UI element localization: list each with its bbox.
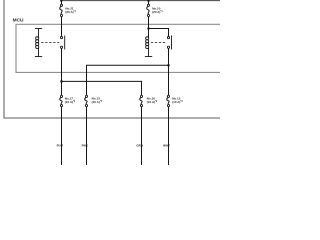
relay 2 coil (right) [145,29,152,57]
svg-text:(20 A)*1: (20 A)*1 [65,10,76,14]
svg-text:PUR: PUR [57,144,64,148]
wire: top line to fuse No.10 [148,1,150,5]
wire: right junction left then down to fuse No.13 [87,65,169,95]
fuse No.10 (20 A) [147,4,150,16]
wire: relay 1 switch down to node [61,48,63,95]
node: relay 2 feed junction [147,27,149,29]
svg-text:GRN: GRN [136,144,143,148]
node: right distribution junction [167,64,170,67]
node: top of No.10 feed [147,0,149,2]
relay 1 dashed link [41,42,59,44]
outer fuse/relay box border (cut off at top/right) [4,0,220,118]
relay 2 dashed link [151,42,166,44]
top bus wire [61,0,220,2]
wire: fuse No.13 to connector [86,107,88,165]
wire: fuse No.10 down to node [148,17,150,29]
svg-text:(20 A)*1: (20 A)*1 [152,10,163,14]
relay 2 switch [167,36,171,50]
wire: relay 2 switch down to node [168,48,170,65]
fuse No.16 (10 A) [140,95,143,106]
MCU box [16,24,220,72]
svg-text:(10 A)*2: (10 A)*2 [92,100,103,104]
svg-text:(10 A)*3: (10 A)*3 [172,100,183,104]
wire: right junction down to fuse No.12 [168,65,170,95]
wire: left junction right then down to fuse No.16 [62,81,142,95]
fuse No.17 (10 A) [60,95,63,106]
svg-text:WHT: WHT [163,144,170,148]
wire: node to relay 2 switch [149,29,169,37]
svg-text:(10 A)*2: (10 A)*2 [147,100,158,104]
svg-text:PNK: PNK [82,144,89,148]
fuse No.12 (10 A) [167,95,170,106]
relay 1 switch [60,36,64,50]
wire: fuse No.21 to relay switch [61,17,63,37]
fuse No.21 (20 A) [60,4,63,16]
svg-text:MCU: MCU [13,17,24,23]
node: top of No.21 feed [60,0,62,2]
relay 1 coil (left) [35,29,42,57]
fuse No.13 (10 A) [85,95,88,106]
wire: fuse No.17 to connector [61,107,63,165]
wire: top line to fuse No.21 [61,1,63,5]
svg-text:(10 A)*2: (10 A)*2 [65,100,76,104]
wire: fuse No.12 to connector [168,107,170,165]
wire: fuse No.16 to connector [141,107,143,165]
node: left distribution junction [60,80,63,83]
